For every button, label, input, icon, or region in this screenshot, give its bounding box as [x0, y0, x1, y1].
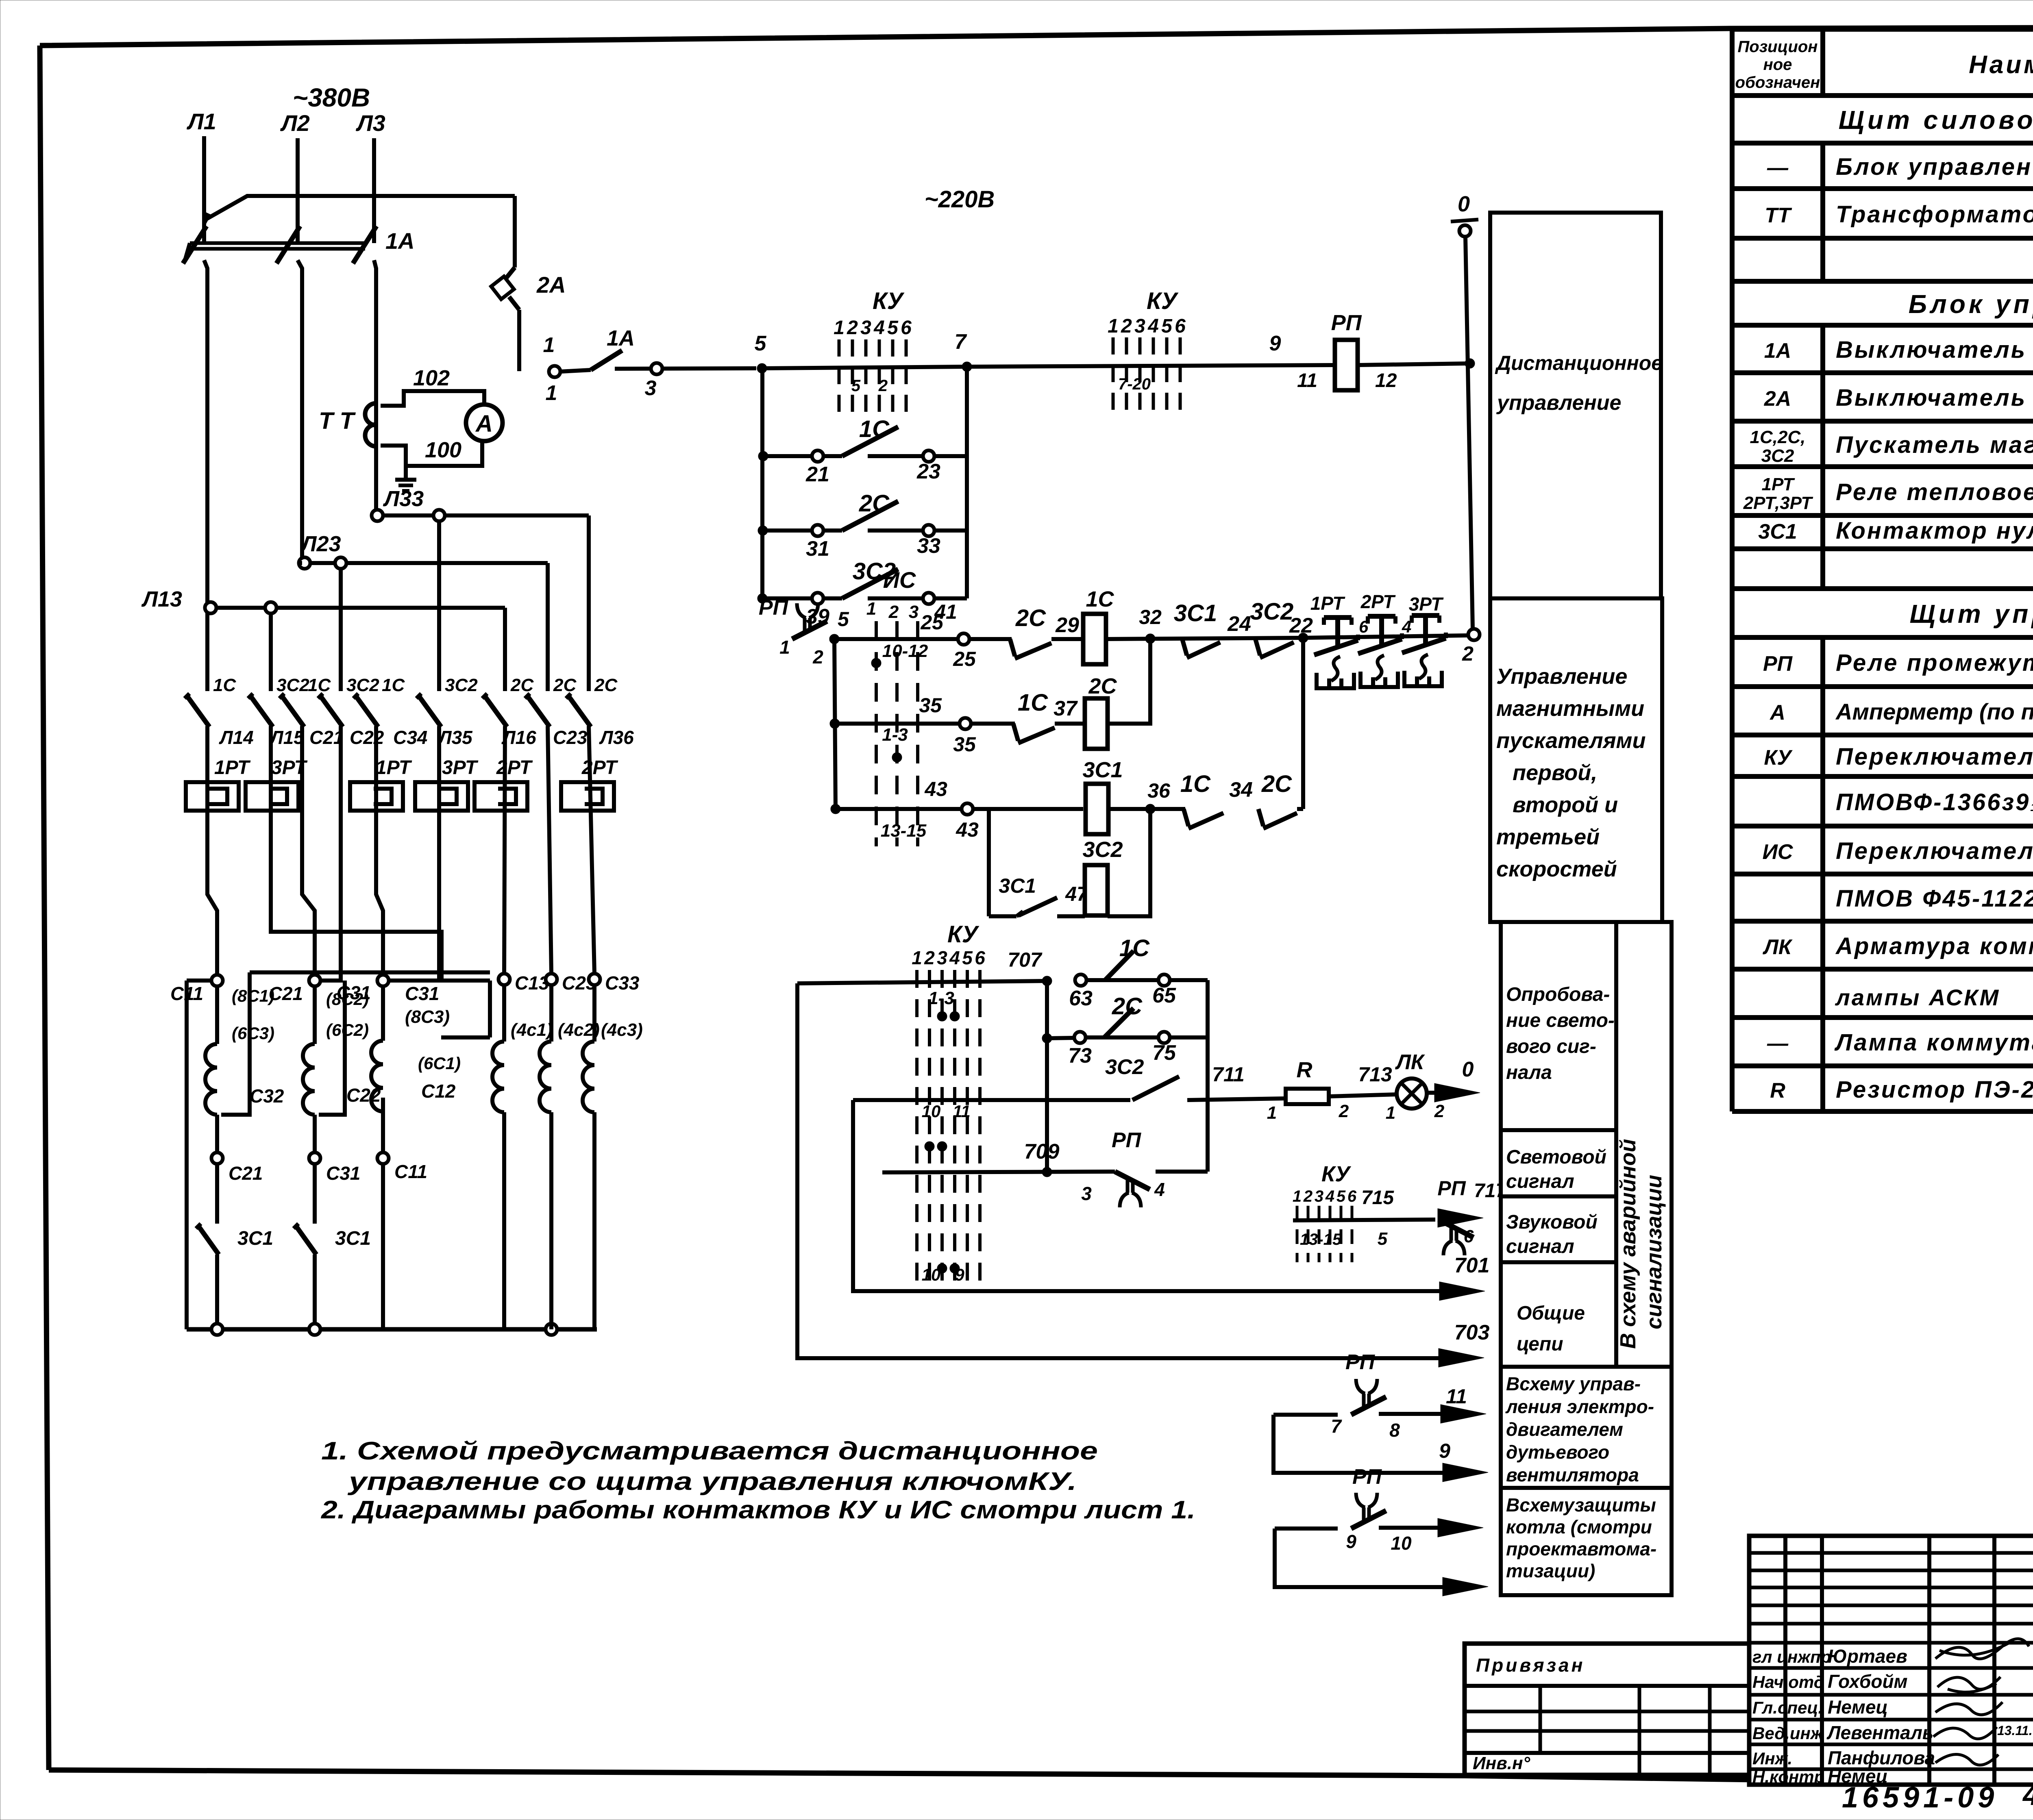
wire TT secondary 102	[381, 366, 484, 406]
node 7	[955, 330, 972, 372]
svg-text:ТТ: ТТ	[1765, 204, 1792, 227]
ground symbol	[395, 466, 416, 491]
function box: to boiler protection	[1501, 1488, 1672, 1595]
svg-text:3С1: 3С1	[999, 874, 1036, 897]
contact 1C NC row43	[1180, 771, 1253, 828]
wire fan row 9	[1273, 1415, 1488, 1482]
svg-text:гл инжпр: гл инжпр	[1752, 1647, 1831, 1666]
relay contact RP row715	[1378, 1177, 1474, 1255]
svg-text:(6С1): (6С1)	[418, 1054, 461, 1073]
svg-text:2А: 2А	[1764, 387, 1791, 411]
row 25: wire	[834, 637, 958, 641]
terminal 3	[645, 363, 662, 400]
svg-text:2: 2	[812, 646, 823, 668]
svg-text:Л33: Л33	[383, 487, 424, 511]
svg-text:(6С3): (6С3)	[232, 1024, 274, 1043]
svg-text:Блок управления: Блок управления	[1909, 289, 2033, 319]
wire phase L3 lower	[374, 260, 376, 515]
row 35: wire with node	[830, 719, 960, 728]
contactor contact 1С	[353, 675, 405, 727]
svg-text:Световой: Световой	[1506, 1146, 1606, 1168]
row 43: wire with node	[831, 804, 962, 814]
wire 703	[797, 983, 1489, 1367]
svg-text:Выключатель автоматический: Выключатель автоматический	[1836, 337, 2033, 363]
contact 2C row 73-75	[1047, 993, 1208, 1068]
svg-text:РП: РП	[1112, 1129, 1142, 1152]
wire row 715	[1293, 1187, 1435, 1220]
svg-text:пускателями: пускателями	[1496, 728, 1646, 753]
svg-text:ние свето-: ние свето-	[1506, 1010, 1615, 1031]
svg-text:Трансформатор тока ТК20: Трансформатор тока ТК20	[1836, 201, 2033, 228]
breaker 1A three-pole	[183, 226, 415, 263]
svg-text:Л14: Л14	[219, 727, 254, 748]
wire C23	[548, 726, 551, 974]
svg-text:703: 703	[1454, 1321, 1490, 1344]
svg-text:1С: 1С	[1119, 935, 1150, 961]
svg-text:2РТ: 2РТ	[496, 757, 533, 778]
svg-text:Наименование: Наименование	[1969, 51, 2033, 79]
svg-text:Переключатель: Переключатель	[1836, 744, 2033, 770]
svg-text:25: 25	[953, 648, 976, 670]
svg-text:первой,: первой,	[1513, 761, 1597, 785]
node L33 tap	[372, 487, 589, 521]
wire phase L2 upper	[296, 138, 300, 243]
contact 3C2 row 39-41	[762, 558, 967, 628]
function box: sound signal	[1501, 1196, 1616, 1262]
svg-text:2С: 2С	[1112, 993, 1143, 1020]
terminal 35	[919, 694, 976, 756]
svg-text:2С: 2С	[553, 675, 577, 695]
svg-text:третьей: третьей	[1496, 825, 1600, 849]
svg-text:2: 2	[888, 602, 899, 622]
wire node7 to KU bank2	[967, 365, 1335, 367]
svg-text:1-3: 1-3	[928, 988, 954, 1008]
function box: lamp test	[1501, 922, 1616, 1130]
svg-text:11: 11	[1297, 370, 1317, 391]
svg-text:A: A	[475, 411, 493, 437]
svg-text:10-12: 10-12	[882, 641, 928, 661]
svg-text:102: 102	[413, 366, 450, 390]
svg-text:Позицион: Позицион	[1738, 38, 1818, 56]
svg-text:Л36: Л36	[599, 727, 634, 748]
svg-text:Резистор ПЭ-25: Резистор ПЭ-25	[1836, 1076, 2033, 1103]
winding tap jog	[250, 970, 490, 974]
svg-text:Н.контр: Н.контр	[1752, 1767, 1824, 1786]
svg-text:9: 9	[1346, 1531, 1356, 1552]
svg-text:скоростей: скоростей	[1496, 857, 1617, 881]
relay coil RP	[1297, 311, 1397, 391]
svg-text:5: 5	[1336, 1187, 1346, 1205]
thermal contact 2RT	[1358, 591, 1411, 687]
svg-text:1РТ: 1РТ	[1761, 474, 1795, 494]
wire control line left	[615, 368, 756, 369]
svg-text:5: 5	[838, 608, 849, 631]
svg-text:управление: управление	[1496, 391, 1621, 415]
thermal relay heater 1РТ	[350, 757, 412, 811]
svg-text:9: 9	[1439, 1439, 1450, 1462]
svg-text:ПМОВ Ф45-112222 /Ⅱ-ДI: ПМОВ Ф45-112222 /Ⅱ-ДI	[1836, 885, 2033, 912]
svg-text:35: 35	[919, 694, 942, 717]
svg-text:С33: С33	[605, 972, 640, 994]
svg-text:2: 2	[1121, 315, 1132, 337]
svg-text:Гл.спец.: Гл.спец.	[1752, 1698, 1823, 1717]
resistor R	[1267, 1058, 1349, 1123]
svg-text:65: 65	[1152, 984, 1176, 1007]
svg-text:Лампа коммутаторная КМ-5: Лампа коммутаторная КМ-5	[1834, 1029, 2033, 1056]
wire L16 drop	[503, 608, 507, 691]
svg-text:Амперметр (по проекту автомати: Амперметр (по проекту автоматизации)	[1835, 699, 2033, 724]
svg-text:100: 100	[425, 438, 461, 462]
svg-text:24: 24	[1227, 612, 1251, 636]
svg-text:котла (смотри: котла (смотри	[1506, 1516, 1652, 1537]
svg-text:715: 715	[1361, 1187, 1394, 1209]
svg-text:63: 63	[1069, 987, 1093, 1010]
thermal relay heater 3РТ	[246, 757, 308, 811]
svg-text:75: 75	[1152, 1041, 1176, 1065]
svg-text:5: 5	[851, 377, 861, 395]
svg-text:Л1: Л1	[186, 109, 216, 134]
svg-text:С21: С21	[269, 983, 303, 1004]
svg-text:7: 7	[955, 330, 967, 354]
contact 3C2 lamp row	[1105, 1055, 1286, 1100]
motor winding group C21	[269, 975, 381, 1224]
svg-text:ления электро-: ления электро-	[1505, 1396, 1654, 1417]
svg-text:709: 709	[1024, 1140, 1060, 1163]
terminal 0 neutral	[1451, 192, 1478, 237]
contactor contact 3C1 right	[294, 1224, 371, 1324]
svg-text:4: 4	[873, 317, 885, 339]
svg-text:3С1: 3С1	[237, 1228, 273, 1249]
wire C34	[376, 726, 383, 975]
wire coil2C up to node32	[1108, 639, 1150, 724]
svg-text:1: 1	[543, 333, 555, 357]
svg-text:1С: 1С	[1180, 771, 1211, 797]
svg-text:1РТ: 1РТ	[1310, 593, 1346, 614]
terminal 2 to neutral	[1462, 629, 1480, 665]
table header	[1735, 38, 2033, 91]
function box: speed control	[1490, 598, 1662, 922]
switch KU bank 3 long dashed	[912, 921, 985, 1285]
svg-text:Гохбойм: Гохбойм	[1828, 1671, 1908, 1692]
svg-text:6: 6	[1347, 1187, 1357, 1205]
motor winding group C31	[337, 975, 490, 1329]
relay contact RP row709	[1081, 1129, 1208, 1207]
svg-text:4: 4	[1154, 1179, 1165, 1200]
svg-text:7: 7	[1331, 1416, 1342, 1437]
wire boiler row lower	[1275, 1529, 1488, 1596]
svg-text:6: 6	[1464, 1226, 1474, 1246]
svg-text:25: 25	[920, 611, 944, 634]
svg-text:13-15: 13-15	[881, 821, 927, 841]
svg-text:10: 10	[922, 1102, 941, 1121]
wire L16	[504, 726, 505, 974]
svg-text:Всхемузащиты: Всхемузащиты	[1506, 1494, 1656, 1516]
svg-text:3С2: 3С2	[1250, 598, 1293, 625]
svg-text:2. Диаграммы работы конта: 2. Диаграммы работы контактов КУ и ИС см…	[321, 1496, 1195, 1524]
contactor contact 3С2	[248, 675, 309, 727]
relay contact RP fan row 7-8	[1273, 1350, 1486, 1441]
svg-text:1А: 1А	[385, 228, 415, 254]
svg-text:С21: С21	[309, 727, 344, 748]
svg-text:1: 1	[1386, 1103, 1395, 1123]
svg-text:1С: 1С	[382, 675, 405, 695]
svg-text:ИС: ИС	[883, 567, 916, 593]
svg-text:Опробова-: Опробова-	[1506, 984, 1610, 1005]
svg-text:двигателем: двигателем	[1506, 1419, 1623, 1440]
function box: to fan motor control	[1501, 1367, 1672, 1488]
contactor contact 1С	[279, 675, 331, 727]
branch 3C2 coil	[989, 809, 1089, 916]
contact 1C row 63-65	[1069, 935, 1208, 1010]
wire L1 to blade	[207, 268, 208, 691]
wire RT row	[1303, 635, 1468, 638]
thermal relay heater 2РТ	[561, 757, 618, 811]
terminal 1	[543, 333, 560, 405]
switch KU bank 4	[1293, 1162, 1357, 1262]
thermal relay heater 2РТ	[475, 757, 533, 811]
svg-text:вентилятора: вентилятора	[1506, 1464, 1639, 1485]
function box: light signal	[1501, 1130, 1616, 1196]
svg-text:13-15: 13-15	[1300, 1231, 1342, 1248]
wire 2A drop	[513, 196, 517, 267]
svg-text:вого сиг-: вого сиг-	[1506, 1036, 1596, 1057]
svg-text:Вед.инж: Вед.инж	[1752, 1724, 1824, 1743]
node L13 tap	[141, 587, 505, 613]
svg-text:5: 5	[1378, 1229, 1388, 1249]
svg-text:КУ: КУ	[1147, 288, 1179, 314]
wire C22	[322, 726, 341, 981]
svg-text:1С: 1С	[213, 675, 236, 695]
wire left bus rows 25-43	[834, 639, 836, 809]
contact 2C NC row43	[1258, 771, 1303, 828]
svg-text:Юртаев: Юртаев	[1828, 1646, 1907, 1667]
svg-text:Левенталь: Левенталь	[1826, 1722, 1933, 1743]
svg-text:1С: 1С	[1018, 689, 1048, 716]
relay contact RP start row	[759, 596, 849, 668]
svg-text:С31: С31	[337, 982, 371, 1003]
wire right bus 25-43	[1301, 638, 1305, 809]
node L3	[355, 110, 385, 136]
svg-text:сигнал: сигнал	[1506, 1171, 1574, 1192]
function box: common circuits	[1501, 1262, 1616, 1367]
label ~380V supply	[293, 83, 370, 112]
svg-text:Общие: Общие	[1517, 1302, 1585, 1324]
svg-text:1: 1	[866, 599, 876, 619]
svg-text:Реле тепловое: Реле тепловое	[1836, 479, 2033, 505]
svg-text:11: 11	[1446, 1385, 1467, 1408]
svg-text:КУ: КУ	[947, 921, 979, 948]
svg-text:—: —	[1767, 1032, 1789, 1055]
wire R to lamp	[1329, 1063, 1397, 1096]
svg-text:С31: С31	[326, 1163, 360, 1184]
svg-text:0: 0	[1462, 1058, 1474, 1081]
svg-text:2С: 2С	[1088, 674, 1117, 698]
contact 2C row 31-33	[763, 490, 967, 561]
current transformer TT	[319, 403, 376, 446]
thermal relay heater 3РТ	[415, 757, 479, 811]
svg-text:1С,2С,: 1С,2С,	[1750, 427, 1806, 447]
svg-text:КУ: КУ	[873, 288, 905, 314]
wire coil1C to node32	[1106, 638, 1303, 639]
svg-text:1. Схемой предусматривает: 1. Схемой предусматривается дистанционно…	[321, 1437, 1098, 1465]
svg-text:3: 3	[1081, 1183, 1092, 1204]
svg-text:(4с3): (4с3)	[601, 1020, 643, 1040]
svg-text:2РТ: 2РТ	[1360, 591, 1396, 612]
arrow lamp row to 0	[1427, 1058, 1480, 1102]
svg-text:Звуковой: Звуковой	[1506, 1211, 1598, 1233]
svg-text:7-20: 7-20	[1118, 375, 1151, 393]
svg-text:1: 1	[1267, 1103, 1277, 1123]
svg-text:Дистанционное: Дистанционное	[1495, 352, 1663, 374]
svg-text:Т Т: Т Т	[319, 408, 356, 434]
lamp LK	[1386, 1050, 1445, 1123]
motor winding С33	[583, 972, 643, 1329]
svg-text:1: 1	[912, 947, 922, 968]
svg-text:707: 707	[1008, 948, 1043, 971]
svg-text:Л15: Л15	[269, 727, 305, 748]
svg-text:2: 2	[878, 377, 888, 395]
svg-text:(8С1): (8С1)	[232, 986, 274, 1005]
svg-text:(4с1): (4с1)	[511, 1020, 553, 1040]
svg-text:21: 21	[805, 463, 829, 486]
function strip: to alarm circuit	[1616, 922, 1672, 1367]
svg-text:3С2: 3С2	[1761, 446, 1794, 466]
svg-text:3РТ: 3РТ	[1409, 594, 1444, 615]
table rows text	[1743, 105, 2033, 1103]
svg-text:3С1: 3С1	[335, 1228, 371, 1249]
contactor contact 3C1 left	[196, 1224, 273, 1324]
wire RP coil to neutral	[1358, 359, 1475, 368]
svg-text:лампы АСКМ: лампы АСКМ	[1835, 985, 2000, 1010]
contact 3C2 NC row25	[1250, 598, 1313, 658]
contact 3C1 NC row25	[1174, 600, 1251, 658]
contactor coil 2C	[1085, 674, 1117, 749]
node right bus row25	[1298, 633, 1308, 643]
wire row43	[973, 807, 1083, 811]
svg-text:Выключатель автоматический: Выключатель автоматический	[1836, 385, 2033, 411]
contactor coil 3C2	[1082, 837, 1123, 916]
svg-text:R: R	[1297, 1058, 1313, 1082]
label ~220V	[925, 186, 995, 213]
svg-text:(8С3): (8С3)	[405, 1007, 450, 1027]
svg-text:34: 34	[1229, 778, 1253, 802]
svg-text:обозначен: обозначен	[1735, 74, 1820, 91]
svg-text:33: 33	[917, 534, 940, 558]
svg-text:2С: 2С	[510, 675, 534, 695]
svg-text:Л35: Л35	[438, 727, 473, 748]
svg-text:1: 1	[834, 317, 845, 339]
svg-text:ЛК: ЛК	[1395, 1050, 1425, 1074]
title block stamp grid	[1749, 1536, 2033, 1785]
function box: remote control	[1490, 213, 1663, 598]
svg-text:5: 5	[1161, 315, 1173, 337]
svg-text:Пускатель магнитный: Пускатель магнитный	[1836, 432, 2033, 458]
ammeter A	[466, 404, 503, 441]
contact 2C NC row25	[969, 605, 1083, 659]
wire L35	[437, 726, 441, 981]
terminal 25	[920, 611, 976, 670]
svg-text:13.11.75: 13.11.75	[1997, 1723, 2033, 1738]
svg-text:1: 1	[546, 381, 557, 405]
svg-text:С32: С32	[250, 1085, 284, 1107]
svg-text:РП: РП	[1345, 1350, 1376, 1374]
contactor contact 2С	[525, 675, 577, 727]
svg-text:16591-09: 16591-09	[1842, 1781, 1998, 1814]
contactor contact 2С	[482, 675, 534, 727]
node 32	[1139, 606, 1162, 644]
svg-text:3С1: 3С1	[1174, 600, 1217, 626]
svg-text:Управление: Управление	[1496, 664, 1627, 689]
svg-text:2С: 2С	[594, 675, 618, 695]
svg-text:С12: С12	[421, 1081, 456, 1102]
svg-text:32: 32	[1139, 606, 1162, 628]
svg-text:2С: 2С	[859, 490, 890, 517]
contactor contact 1С	[185, 675, 236, 727]
arrow 717	[1438, 1180, 1507, 1227]
svg-text:РП: РП	[1352, 1465, 1382, 1489]
svg-text:2РТ: 2РТ	[581, 757, 618, 778]
node row39	[757, 594, 767, 603]
contactor contact 2С	[566, 675, 618, 727]
contactor coil 3C1	[1082, 758, 1123, 834]
thermal contact 1RT	[1310, 593, 1369, 688]
svg-text:~220В: ~220В	[925, 186, 995, 213]
svg-text:Привязан: Привязан	[1476, 1655, 1585, 1676]
svg-text:3: 3	[1134, 315, 1145, 337]
svg-text:3С1: 3С1	[1082, 758, 1123, 782]
svg-text:5: 5	[887, 317, 899, 339]
svg-text:3: 3	[1315, 1187, 1323, 1205]
svg-text:31: 31	[806, 537, 829, 561]
svg-text:(6С2): (6С2)	[326, 1020, 369, 1039]
svg-text:С34: С34	[393, 727, 427, 748]
svg-text:С13: С13	[515, 972, 549, 994]
thermal contact 3RT	[1402, 594, 1446, 686]
svg-text:1С: 1С	[859, 416, 890, 442]
svg-text:29: 29	[1055, 613, 1079, 637]
svg-text:Л3: Л3	[355, 110, 385, 136]
svg-text:R: R	[1770, 1079, 1785, 1102]
svg-text:2А: 2А	[536, 272, 566, 298]
motor winding С13	[492, 972, 553, 1329]
svg-text:1: 1	[1108, 315, 1119, 337]
svg-text:2: 2	[924, 947, 935, 968]
svg-text:Арматура коммутаторной: Арматура коммутаторной	[1835, 933, 2033, 959]
svg-text:43: 43	[924, 778, 947, 800]
svg-text:43: 43	[956, 818, 979, 841]
svg-text:В схему аварийной: В схему аварийной	[1616, 1139, 1640, 1349]
contactor contact 3С2	[318, 675, 379, 727]
svg-text:С31: С31	[405, 983, 439, 1004]
svg-text:6: 6	[1175, 315, 1186, 337]
svg-text:Щит силовой управления: Щит силовой управления	[1839, 105, 2033, 135]
svg-text:Инв.н°: Инв.н°	[1473, 1753, 1530, 1773]
svg-text:701: 701	[1454, 1254, 1490, 1277]
svg-text:ИС: ИС	[1763, 840, 1794, 864]
svg-text:А: А	[1769, 701, 1785, 724]
contact 1C NC row35	[971, 689, 1083, 743]
node row31	[758, 526, 768, 535]
svg-text:0: 0	[1458, 192, 1470, 216]
svg-text:6: 6	[975, 947, 985, 968]
wire L36 drop	[587, 515, 591, 691]
node L1	[186, 109, 216, 134]
svg-text:9: 9	[1269, 332, 1281, 355]
wire node5 to node7	[762, 367, 967, 368]
svg-text:РП: РП	[759, 596, 789, 620]
svg-text:~380В: ~380В	[293, 83, 370, 112]
contactor coil 1C	[1083, 587, 1114, 664]
